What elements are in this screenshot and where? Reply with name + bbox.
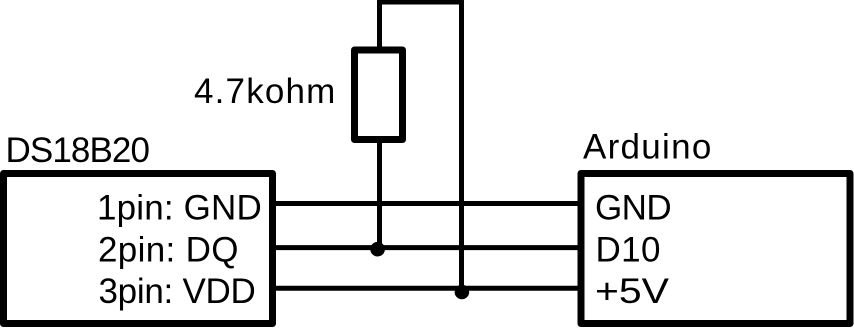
svg-text:3pin: VDD: 3pin: VDD	[99, 272, 256, 311]
wire DQ (DS18B20 pin2 to Arduino D10)	[274, 245, 579, 250]
junction dot on DQ wire	[370, 242, 385, 257]
wire from resistor bottom down to DQ junction	[377, 139, 382, 249]
wire +5V (DS18B20 pin3 to Arduino +5V)	[274, 286, 579, 291]
svg-text:1pin: GND: 1pin: GND	[97, 188, 262, 227]
svg-text:4.7kohm: 4.7kohm	[194, 72, 337, 111]
junction dot on +5V wire	[455, 285, 470, 300]
svg-text:DS18B20: DS18B20	[6, 131, 150, 170]
svg-text:+5V: +5V	[595, 272, 670, 311]
svg-text:D10: D10	[596, 231, 661, 270]
component DS18B20 box	[4, 174, 273, 324]
resistor R1 body	[355, 50, 403, 140]
svg-text:Arduino: Arduino	[583, 128, 713, 167]
svg-text:GND: GND	[595, 188, 671, 227]
component Arduino box	[581, 174, 850, 324]
svg-text:2pin: DQ: 2pin: DQ	[98, 231, 239, 270]
wire GND (DS18B20 pin1 to Arduino GND)	[274, 201, 579, 206]
wire from resistor top to +5V rail (up, across, down)	[380, 2, 462, 290]
